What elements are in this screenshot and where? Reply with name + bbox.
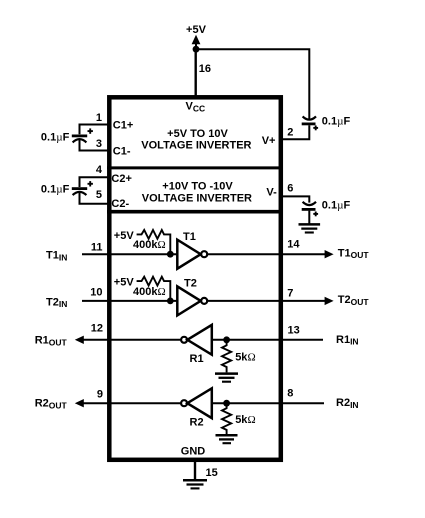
svg-text:0.1µF: 0.1µF: [322, 115, 351, 127]
arrow: R2 output (points left): [75, 399, 84, 407]
svg-text:3: 3: [96, 138, 102, 150]
capacitor C1 plus sign: [88, 128, 93, 133]
wire: pin 6 V-: [283, 196, 309, 202]
svg-text:T1IN: T1IN: [46, 250, 67, 263]
ground symbol at pin 15: [183, 480, 207, 488]
buffer T2 (triangle): [177, 286, 200, 315]
wire: pin 13 R1 input: [212, 339, 323, 341]
svg-text:400kΩ: 400kΩ: [133, 286, 166, 298]
svg-text:12: 12: [91, 323, 103, 335]
svg-text:0.1µF: 0.1µF: [322, 200, 351, 212]
svg-text:C2+: C2+: [111, 173, 131, 185]
node: R1 input junction: [223, 336, 230, 343]
buffer T1 (triangle): [177, 240, 200, 269]
divider line below +10V-to--10V section: [107, 210, 283, 214]
capacitor C2 curved plate: [73, 192, 87, 195]
svg-text:+5V: +5V: [186, 24, 207, 36]
node: T1 input junction: [167, 251, 174, 258]
ground symbol at R1 resistor: [215, 374, 238, 382]
svg-text:5kΩ: 5kΩ: [235, 414, 255, 426]
divider line between +5V-to-10V section and +10V-to--10V section: [107, 166, 283, 169]
svg-text:R1IN: R1IN: [336, 334, 359, 347]
arrow: T1 output: [325, 250, 334, 258]
wire: +5V rail to V+ bypass capacitor: [196, 49, 309, 119]
arrow: R1 output (points left): [75, 336, 84, 344]
ground symbol at C4: [299, 224, 321, 232]
resistor 400k T1 (lead + zigzag + corner): [137, 230, 171, 254]
node: R2 input junction: [223, 400, 230, 407]
wire: pin 10 T2 input: [82, 300, 178, 302]
svg-text:T1OUT: T1OUT: [338, 247, 370, 260]
capacitor C2 0.1uF (flat plate): [72, 187, 87, 190]
wire: pin 1 C1+: [80, 125, 112, 135]
svg-text:R2: R2: [190, 417, 204, 429]
wire: pin 8 R2 input: [212, 402, 324, 404]
svg-text:R1: R1: [190, 353, 204, 365]
svg-text:8: 8: [287, 388, 293, 400]
svg-text:11: 11: [91, 241, 103, 253]
svg-text:6: 6: [287, 182, 293, 194]
wire: pin 4 C2+: [80, 177, 112, 187]
receiver R1 input bubble: [181, 337, 187, 343]
resistor 5k R1 (vertical zigzag): [222, 340, 231, 373]
svg-text:5: 5: [96, 189, 102, 201]
receiver R2 input bubble: [181, 400, 187, 406]
main IC box U1: [109, 97, 280, 460]
svg-text:2: 2: [287, 127, 293, 139]
svg-text:+5V: +5V: [114, 277, 135, 289]
wire: pin 5 C2-: [80, 192, 112, 204]
svg-text:V+: V+: [262, 135, 276, 147]
svg-text:+10V TO -10V: +10V TO -10V: [162, 181, 233, 193]
receiver R1 (triangle, points left): [187, 325, 212, 355]
capacitor C3 flat plate: [302, 123, 316, 126]
capacitor C1 0.1uF (flat plate): [72, 134, 87, 137]
arrow: T2 output: [325, 297, 334, 305]
svg-text:13: 13: [288, 325, 300, 337]
wire: pin 12 R1 output: [83, 339, 181, 341]
buffer T2 output bubble: [201, 298, 207, 304]
svg-text:VOLTAGE INVERTER: VOLTAGE INVERTER: [142, 193, 252, 205]
svg-text:T1: T1: [183, 231, 196, 243]
capacitor C2 plus sign: [88, 181, 93, 186]
svg-text:V-: V-: [266, 187, 277, 199]
capacitor C4 plus sign: [313, 212, 318, 217]
svg-text:10: 10: [90, 287, 102, 299]
wire: pin 2 V+: [283, 125, 309, 139]
ground symbol at R2 resistor: [216, 435, 238, 443]
wire: pin 16 VCC: [194, 49, 196, 97]
receiver R2 (triangle, points left): [187, 388, 212, 418]
svg-text:T2OUT: T2OUT: [338, 294, 370, 307]
svg-text:1: 1: [96, 112, 102, 124]
wire: C4 to ground: [308, 211, 310, 224]
resistor 5k R2 (vertical zigzag): [222, 403, 231, 434]
wire: pin 14 T1 output: [207, 253, 325, 255]
svg-text:GND: GND: [181, 445, 206, 457]
wire: pin 9 R2 output: [83, 402, 181, 404]
svg-text:15: 15: [206, 467, 218, 479]
svg-text:16: 16: [199, 63, 211, 75]
svg-text:14: 14: [287, 239, 300, 251]
svg-text:7: 7: [287, 287, 293, 299]
svg-text:+5V: +5V: [114, 230, 135, 242]
svg-text:VOLTAGE INVERTER: VOLTAGE INVERTER: [141, 139, 251, 151]
svg-text:T2: T2: [184, 277, 197, 289]
capacitor C3 plus sign: [313, 126, 318, 131]
svg-text:C2-: C2-: [111, 198, 129, 210]
capacitor C3 0.1uF on V+ (curved plate): [303, 116, 316, 119]
resistor 400k T2 (lead + zigzag + corner): [137, 277, 171, 301]
svg-text:0.1µF: 0.1µF: [41, 132, 70, 144]
svg-text:R2IN: R2IN: [336, 397, 359, 410]
svg-text:400kΩ: 400kΩ: [133, 239, 166, 251]
svg-text:5kΩ: 5kΩ: [235, 352, 255, 364]
capacitor C4 0.1uF on V- (curved plate): [303, 202, 316, 205]
svg-text:0.1µF: 0.1µF: [41, 184, 70, 196]
wire: pin 15 GND: [194, 460, 196, 479]
capacitor C1 curved plate: [73, 139, 87, 142]
svg-text:C1-: C1-: [113, 146, 131, 158]
capacitor C4 flat plate: [302, 208, 316, 211]
svg-text:C1+: C1+: [113, 120, 134, 132]
wire: pin 11 T1 input: [82, 253, 178, 255]
wire: pin 3 C1-: [80, 140, 112, 151]
svg-text:T2IN: T2IN: [46, 296, 67, 309]
node: T2 input junction: [167, 298, 174, 305]
buffer T1 output bubble: [201, 251, 207, 257]
node: +5V junction: [193, 46, 200, 53]
+5V arrow: [192, 35, 201, 49]
svg-text:9: 9: [97, 388, 103, 400]
wire: pin 7 T2 output: [207, 300, 325, 302]
svg-text:4: 4: [96, 164, 103, 176]
